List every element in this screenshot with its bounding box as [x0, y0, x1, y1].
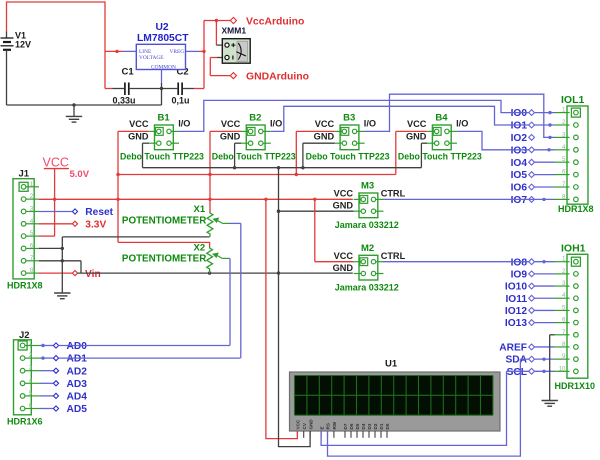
svg-text:5.0V: 5.0V: [70, 169, 90, 180]
svg-text:12V: 12V: [15, 39, 31, 49]
svg-text:VCC: VCC: [129, 119, 149, 129]
svg-text:IO9: IO9: [511, 269, 528, 280]
svg-text:M3: M3: [361, 181, 374, 192]
svg-text:IO5: IO5: [511, 170, 528, 181]
svg-text:6: 6: [562, 317, 566, 324]
svg-text:GND: GND: [333, 201, 354, 211]
svg-text:3.3V: 3.3V: [85, 220, 106, 231]
svg-text:1: 1: [562, 256, 566, 263]
svg-text:2: 2: [562, 119, 566, 126]
svg-text:9: 9: [562, 353, 566, 360]
svg-text:D6: D6: [349, 423, 354, 429]
svg-text:HDR1X8: HDR1X8: [7, 280, 43, 290]
svg-text:6: 6: [562, 169, 566, 176]
svg-text:8: 8: [562, 341, 566, 348]
svg-text:IO4: IO4: [511, 158, 528, 169]
svg-text:1: 1: [29, 340, 33, 347]
svg-text:5: 5: [30, 230, 34, 237]
svg-text:8: 8: [30, 267, 34, 274]
svg-text:Vin: Vin: [85, 269, 101, 280]
svg-text:3: 3: [562, 280, 566, 287]
svg-text:6: 6: [29, 403, 33, 410]
svg-text:2: 2: [30, 193, 34, 200]
svg-text:VCC: VCC: [315, 119, 335, 129]
svg-text:6: 6: [30, 242, 34, 249]
svg-text:U2: U2: [156, 22, 169, 33]
svg-text:D4: D4: [361, 423, 366, 429]
svg-text:C1: C1: [122, 67, 135, 78]
svg-text:RS: RS: [326, 423, 331, 429]
svg-text:VCC: VCC: [334, 189, 354, 199]
svg-text:8: 8: [562, 193, 566, 200]
svg-text:Jamara 033212: Jamara 033212: [335, 220, 399, 230]
svg-text:GND: GND: [314, 132, 335, 142]
svg-text:AD4: AD4: [67, 392, 88, 403]
svg-text:7: 7: [562, 329, 566, 336]
svg-text:4: 4: [29, 377, 33, 384]
svg-text:CTRL: CTRL: [381, 189, 406, 199]
svg-text:AREF: AREF: [499, 343, 527, 354]
svg-text:5: 5: [562, 156, 566, 163]
svg-text:Debo Touch TTP223: Debo Touch TTP223: [398, 151, 482, 161]
svg-text:GND: GND: [220, 132, 241, 142]
svg-text:D7: D7: [343, 423, 348, 429]
svg-text:U1: U1: [385, 358, 398, 369]
svg-text:1: 1: [562, 107, 566, 114]
svg-text:IO12: IO12: [505, 306, 527, 317]
svg-text:HDR1X8: HDR1X8: [558, 204, 594, 214]
svg-text:IO8: IO8: [511, 257, 528, 268]
svg-text:IOH1: IOH1: [561, 242, 586, 254]
svg-text:IO3: IO3: [511, 145, 528, 156]
svg-text:Reset: Reset: [85, 207, 113, 218]
svg-text:3: 3: [30, 205, 34, 212]
svg-text:D3: D3: [367, 423, 372, 429]
svg-text:IO2: IO2: [511, 133, 528, 144]
svg-text:2: 2: [562, 268, 566, 275]
svg-text:0,1u: 0,1u: [172, 96, 190, 106]
svg-text:VCC: VCC: [296, 419, 301, 429]
svg-text:3: 3: [29, 365, 33, 372]
svg-text:AD1: AD1: [67, 354, 88, 365]
svg-text:VCC: VCC: [334, 251, 354, 261]
svg-text:5: 5: [562, 304, 566, 311]
svg-text:B4: B4: [435, 113, 448, 124]
svg-text:GND: GND: [308, 419, 313, 430]
svg-text:I/O: I/O: [456, 119, 468, 129]
svg-text:SCL: SCL: [507, 367, 527, 378]
svg-text:VccArduino: VccArduino: [246, 16, 304, 27]
svg-text:2: 2: [29, 352, 33, 359]
svg-text:GND: GND: [333, 263, 354, 273]
svg-text:7: 7: [562, 181, 566, 188]
svg-text:5: 5: [29, 390, 33, 397]
svg-text:AD2: AD2: [67, 366, 88, 377]
svg-text:X2: X2: [194, 243, 206, 254]
svg-text:IO10: IO10: [505, 282, 527, 293]
svg-text:IOL1: IOL1: [561, 94, 584, 106]
svg-text:HDR1X6: HDR1X6: [7, 416, 43, 426]
svg-text:B2: B2: [249, 113, 261, 124]
svg-text:I/O: I/O: [364, 119, 376, 129]
svg-text:Debo Touch TTP223: Debo Touch TTP223: [120, 151, 204, 161]
svg-text:XMM1: XMM1: [222, 26, 247, 36]
svg-text:GNDArduino: GNDArduino: [246, 72, 309, 83]
svg-text:HDR1X10: HDR1X10: [555, 381, 596, 391]
svg-text:Debo Touch TTP223: Debo Touch TTP223: [212, 151, 296, 161]
svg-text:CV: CV: [302, 422, 307, 429]
svg-text:AD5: AD5: [67, 404, 88, 415]
svg-text:IO13: IO13: [505, 318, 527, 329]
svg-text:X1: X1: [194, 204, 206, 215]
svg-text:B3: B3: [343, 113, 355, 124]
svg-text:B1: B1: [158, 113, 171, 124]
svg-text:AD3: AD3: [67, 379, 88, 390]
svg-text:Jamara 033212: Jamara 033212: [335, 283, 399, 293]
svg-text:4: 4: [30, 218, 34, 225]
svg-text:I/O: I/O: [178, 119, 190, 129]
svg-text:VREG: VREG: [170, 49, 185, 55]
svg-text:POTENTIOMETER: POTENTIOMETER: [122, 215, 206, 226]
svg-text:10: 10: [559, 365, 566, 372]
svg-text:4: 4: [562, 144, 566, 151]
svg-text:IO6: IO6: [511, 183, 528, 194]
svg-text:E: E: [319, 426, 324, 429]
svg-text:SDA: SDA: [505, 355, 527, 366]
svg-text:POTENTIOMETER: POTENTIOMETER: [122, 254, 206, 265]
svg-text:GND: GND: [128, 132, 149, 142]
svg-text:COMMON: COMMON: [151, 65, 176, 71]
svg-text:VOLTAGE: VOLTAGE: [139, 55, 164, 61]
svg-text:3: 3: [562, 131, 566, 138]
svg-text:CTRL: CTRL: [381, 251, 406, 261]
svg-text:IO11: IO11: [505, 294, 527, 305]
svg-text:7: 7: [30, 255, 34, 262]
svg-text:4: 4: [562, 292, 566, 299]
svg-text:D2: D2: [373, 423, 378, 429]
svg-text:IO7: IO7: [511, 195, 528, 206]
svg-text:1: 1: [30, 181, 34, 188]
svg-text:I/O: I/O: [270, 119, 282, 129]
svg-text:Debo Touch TTP223: Debo Touch TTP223: [306, 151, 390, 161]
svg-text:J1: J1: [19, 169, 30, 180]
svg-text:IO1: IO1: [511, 121, 528, 132]
svg-text:IO0: IO0: [511, 108, 528, 119]
svg-text:LM7805CT: LM7805CT: [137, 33, 189, 44]
svg-text:GND: GND: [406, 132, 427, 142]
svg-text:M2: M2: [361, 243, 374, 254]
svg-text:VCC: VCC: [407, 119, 427, 129]
svg-text:D0: D0: [385, 423, 390, 429]
svg-text:VCC: VCC: [221, 119, 241, 129]
svg-text:D1: D1: [379, 423, 384, 429]
svg-text:D5: D5: [355, 423, 360, 429]
svg-text:RW: RW: [332, 421, 337, 429]
svg-text:0,33u: 0,33u: [113, 96, 136, 106]
svg-text:AD0: AD0: [67, 341, 88, 352]
svg-text:VCC: VCC: [43, 156, 69, 170]
